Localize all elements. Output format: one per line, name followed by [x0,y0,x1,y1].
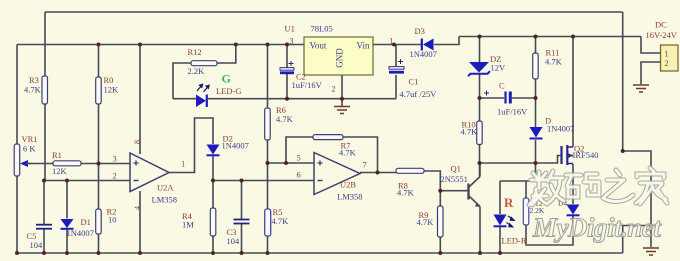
label Q1 [441,164,468,185]
svg-text:1N4007: 1N4007 [67,228,94,238]
wire bottom rail to ground link [623,226,651,254]
diode D2 [207,145,220,156]
svg-text:4.7K: 4.7K [461,127,479,137]
label DC [646,20,678,41]
transistor Q1 [469,163,481,253]
wire R3 top vertical [44,12,46,76]
label R8 [397,181,415,198]
wire pin2 [44,180,130,182]
wire C3 bottom [241,224,243,253]
resistor R10 [477,121,483,145]
resistor R8 [396,168,424,173]
label R0 [104,75,120,95]
wire pin5 [268,162,315,164]
wire +5V rail [17,44,304,46]
diode D4 [567,205,580,216]
svg-text:Vout: Vout [310,41,327,51]
label U2A [152,183,178,205]
label DC pins [665,50,669,69]
label C2 [292,72,323,91]
wire R10 to gate node [479,145,481,177]
wire R4 bottom [212,236,214,253]
svg-text:R12: R12 [188,47,202,57]
svg-text:LED-R: LED-R [502,236,527,246]
label R6 [276,105,294,124]
svg-text:LED-G: LED-G [216,86,242,96]
zener DZ [468,62,490,76]
svg-text:GND: GND [335,48,345,68]
svg-text:4.7K: 4.7K [276,114,294,124]
resistor R6 [265,108,271,140]
mosfet Q2 [562,145,574,165]
wire bottom rail [17,252,623,254]
wire LED-G anode [173,98,196,100]
wire U2A pin8 [139,45,141,155]
wire R7 right leg [343,137,378,173]
wire C1 bottom [395,75,397,99]
svg-text:1: 1 [665,50,669,59]
wire D3 to jog [434,37,459,45]
svg-text:12K: 12K [104,85,120,95]
capacitor C2 [280,61,294,73]
wire R1 to pin3 [81,163,130,165]
svg-text:4.7K: 4.7K [24,85,42,95]
wire VR1 wiper to R1 [22,163,53,165]
wire R3 bottom [44,104,46,181]
wire R2 bottom [98,234,100,253]
wire ground stem bottom right [650,226,652,248]
diode D3 [422,39,434,51]
wire U1 pin1 to D3 [373,44,421,46]
svg-text:1uF/16V: 1uF/16V [292,80,323,90]
resistor R0 [96,77,102,104]
svg-text:7: 7 [363,160,367,170]
svg-text:2: 2 [113,171,117,181]
wire DZ top [479,37,481,63]
op-amp U2A [130,153,169,192]
label U2A pins [113,154,186,181]
svg-text:1M: 1M [182,220,194,230]
svg-text:104: 104 [227,236,241,246]
resistor R12 [191,61,217,66]
svg-text:12V: 12V [491,63,507,73]
wire DC pin2 to ground [641,62,661,84]
wire VR1 bottom [16,176,18,253]
wire LED-R anode [499,181,501,214]
resistor R2 [96,209,102,234]
label D3 [410,26,437,59]
wire U1 gnd stem [341,75,343,106]
svg-text:3: 3 [113,154,117,164]
svg-text:4.7K: 4.7K [397,188,415,198]
diode D [530,127,543,139]
svg-text:1N4007: 1N4007 [222,141,249,151]
label U1 [285,24,333,34]
svg-text:6 K: 6 K [23,144,36,154]
svg-text:R: R [504,195,514,210]
wire U2A out [169,118,213,173]
label R11 [545,48,563,67]
label R2 [107,207,117,225]
wire ground jog right [623,151,651,226]
wire right ground drop [622,12,624,151]
resistor R9 [438,206,444,237]
label C5 [27,231,44,250]
capacitor C1 [389,59,404,72]
wire LED-R loop top [500,180,536,182]
wire C2 top [286,45,288,68]
label D1 [67,217,94,238]
label R9 [417,210,435,227]
svg-text:2.2K: 2.2K [188,66,206,76]
svg-text:1: 1 [390,37,394,46]
svg-text:U2A: U2A [157,183,174,193]
label R12b near LED-R [530,199,545,215]
wire R9 bottom [439,237,441,253]
svg-text:1uF/16V: 1uF/16V [497,107,528,117]
wire pin6 [213,180,314,182]
resistor R3 [42,76,48,104]
capacitor C polarized [484,91,510,104]
wire R12 right leg [217,45,236,64]
svg-text:12K: 12K [52,166,68,176]
wire R11 top [535,37,537,54]
label R7 [339,141,357,158]
svg-text:C: C [499,81,505,91]
wire R11 bottom [535,79,537,98]
resistor near LED-R [523,198,529,225]
svg-text:6: 6 [297,170,301,180]
wire D bottom to gate wire [535,140,537,163]
wire R4 top [212,181,214,209]
wire C left [480,97,505,99]
wire Q2 source down [572,164,574,204]
label R5 [272,207,290,226]
wire LED-R cathode [499,227,501,253]
label R4 [182,211,194,230]
svg-text:MyDigit.net: MyDigit.net [532,213,662,243]
label D [545,116,574,134]
label D2 [222,134,249,151]
svg-text:U2B: U2B [340,180,356,190]
wire Q2 drain [572,37,574,148]
svg-text:DC: DC [655,20,667,30]
label C [497,81,528,117]
svg-text:4.7K: 4.7K [339,148,357,158]
svg-text:1: 1 [181,159,185,169]
svg-text:2: 2 [665,59,669,68]
wire D1 to ground rail [66,229,68,253]
wire R12 left leg [173,63,191,99]
wire VR1 top [16,45,18,145]
ground near U1 [334,107,350,114]
op-amp U2B [314,153,360,195]
svg-text:R0: R0 [104,75,114,85]
wire R0 to pin3 node [98,104,100,209]
svg-text:R1: R1 [52,150,62,160]
resistor R5 [265,209,271,236]
svg-text:G: G [222,72,231,86]
label C1 [400,77,438,100]
svg-text:10: 10 [108,215,117,225]
svg-text:4.7K: 4.7K [417,217,435,227]
DC connector J1 [661,45,679,71]
svg-text:2: 2 [332,85,336,94]
svg-text:8: 8 [133,140,142,144]
wire R8 to Q1 base [424,171,468,191]
svg-text:78L05: 78L05 [311,24,333,34]
ground near DC connector [633,85,649,92]
wire C2 bottom [286,74,288,99]
wire R5 bottom [267,236,269,253]
wire DC pin1 [641,37,661,54]
wire gate wire [480,162,536,164]
regulator U1 box [304,37,373,75]
resistor R4 [210,208,216,236]
LED LED-G [196,84,209,107]
ground bottom right [643,248,659,255]
svg-text:R3: R3 [29,75,39,85]
svg-text:Q1: Q1 [451,164,461,174]
wire R0 top [98,45,100,78]
label DZ [490,54,506,73]
svg-text:16V-24V: 16V-24V [646,30,678,40]
wire gate jog [536,156,561,164]
wire D4 to return [526,216,573,245]
label U2B [337,180,363,202]
svg-text:C1: C1 [409,77,419,87]
svg-text:4.7K: 4.7K [545,57,563,67]
label C3 [227,227,241,246]
wire LED-R resistor top [525,181,527,198]
wire C5 to ground rail [43,229,45,253]
label U2B pins [297,153,367,180]
resistor R1 [53,161,81,166]
svg-text:D1: D1 [81,217,91,227]
svg-text:IRF540: IRF540 [573,150,599,160]
svg-text:LM358: LM358 [152,195,178,205]
wire R6 top [267,45,269,109]
svg-text:104: 104 [30,240,44,250]
diode D1 [61,219,74,229]
capacitor C5 [36,225,52,229]
svg-text:U1: U1 [285,24,295,34]
resistor R11 [533,53,539,79]
svg-text:4.7uf /25V: 4.7uf /25V [400,89,438,99]
wire C right [512,97,536,99]
label R3 [24,75,42,95]
svg-text:D3: D3 [415,26,425,36]
wire C1 top [395,45,397,67]
svg-text:4: 4 [133,206,142,210]
wire D top [535,98,537,127]
label R10 [461,120,479,137]
wire U2A pin4 [139,191,141,253]
LED LED-R [494,215,515,227]
svg-text:Vin: Vin [357,41,370,51]
wire U2B out to R8 [360,172,396,174]
svg-text:1N4007: 1N4007 [547,124,574,134]
watermark shuma zhijia [529,168,667,205]
wire D1 branch [66,181,68,219]
wire R6 to pin5 [267,140,269,209]
svg-text:4.7K: 4.7K [272,216,290,226]
wire C5 branch [43,181,45,225]
wire R7 left leg [286,137,313,163]
wire R9 top [439,191,441,206]
wire ground bus to U1 [208,98,396,100]
wire D2 to pin6 node [212,156,214,181]
capacitor C3 [234,220,250,224]
svg-text:5: 5 [297,153,301,163]
wire DZ to C node [479,74,481,122]
svg-text:1N4007: 1N4007 [410,49,437,59]
svg-text:3: 3 [290,37,294,46]
label Q2 [573,144,599,161]
svg-text:2N5551: 2N5551 [441,174,468,184]
wire C3 top [241,181,243,220]
wire top ground return [45,11,623,13]
label VR1 [22,134,38,154]
svg-text:VR1: VR1 [22,134,38,144]
potentiometer VR1 [14,144,31,176]
wire +24V rail [459,36,641,38]
wire gate node to LED-R loop [535,163,537,181]
svg-text:LM358: LM358 [337,192,363,202]
resistor R7 [313,135,343,140]
label R12 [188,47,206,76]
label R1 [52,150,68,176]
